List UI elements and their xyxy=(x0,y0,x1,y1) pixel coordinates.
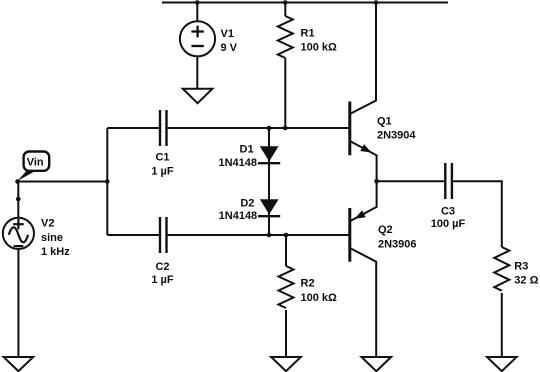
svg-text:9 V: 9 V xyxy=(221,42,238,54)
svg-text:R1: R1 xyxy=(301,28,315,40)
svg-text:V2: V2 xyxy=(41,218,54,230)
svg-text:R2: R2 xyxy=(301,278,315,290)
svg-text:sine: sine xyxy=(41,232,63,244)
svg-text:C1: C1 xyxy=(155,152,169,164)
svg-text:100 kΩ: 100 kΩ xyxy=(301,292,338,304)
svg-text:100 µF: 100 µF xyxy=(431,218,466,230)
svg-text:1 kHz: 1 kHz xyxy=(41,246,70,258)
svg-text:1 µF: 1 µF xyxy=(151,274,174,286)
svg-text:32 Ω: 32 Ω xyxy=(514,275,538,287)
svg-text:C2: C2 xyxy=(155,261,169,273)
svg-text:C3: C3 xyxy=(441,206,455,218)
svg-text:D1: D1 xyxy=(240,144,254,156)
svg-text:Vin: Vin xyxy=(27,156,44,168)
svg-text:2N3906: 2N3906 xyxy=(378,239,417,251)
svg-text:V1: V1 xyxy=(221,28,234,40)
svg-text:100 kΩ: 100 kΩ xyxy=(301,42,338,54)
svg-text:D2: D2 xyxy=(240,198,254,210)
svg-text:R3: R3 xyxy=(514,261,528,273)
svg-text:1N4148: 1N4148 xyxy=(219,210,258,222)
svg-text:1N4148: 1N4148 xyxy=(218,157,257,169)
svg-text:Q1: Q1 xyxy=(377,116,392,128)
svg-text:1 µF: 1 µF xyxy=(151,165,174,177)
svg-text:2N3904: 2N3904 xyxy=(377,129,416,141)
svg-text:Q2: Q2 xyxy=(378,224,393,236)
